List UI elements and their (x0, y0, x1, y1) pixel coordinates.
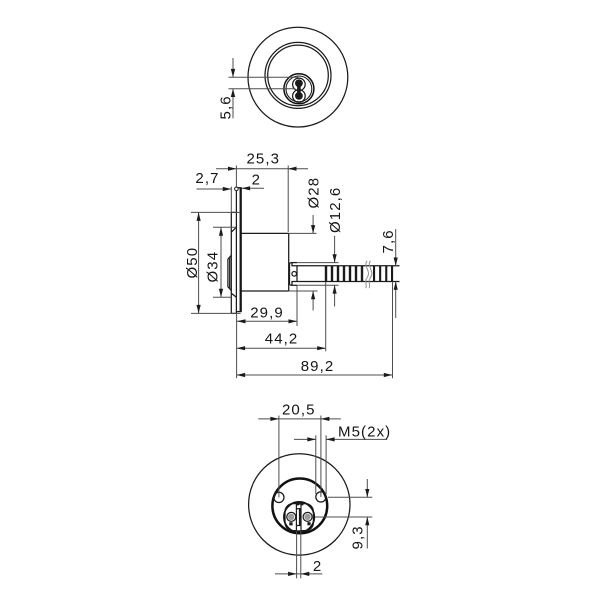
plug nose profile (228, 255, 231, 290)
dimension Ø28 leader bottom (311, 291, 315, 311)
extension line M5 right (325, 435, 327, 494)
dimension 9,3 leader bottom (365, 517, 369, 549)
body rear face (288, 233, 290, 291)
shaft bottom edge (297, 281, 400, 283)
dimension 29,9 line (237, 319, 297, 323)
thread bars section 2 (373, 266, 393, 282)
dimension text 25,3 (246, 151, 280, 168)
flange rear face line (235, 188, 237, 314)
keyhole black dumbbell (295, 79, 303, 99)
dimension text Ø28 (306, 177, 323, 209)
dark wedge above bar (296, 502, 303, 505)
flange top edge (231, 211, 236, 213)
svg-text:25,3: 25,3 (246, 151, 280, 168)
dimension text 44,2 (265, 331, 299, 348)
connector step notch bottom (292, 282, 297, 286)
svg-text:2: 2 (313, 558, 322, 575)
Ø34 extension bottom (213, 296, 231, 298)
connector hole circle (292, 272, 297, 277)
dark mark lower right (307, 522, 310, 525)
dimension text Ø12,6 (327, 187, 344, 233)
extension line 2 right (300, 531, 302, 578)
plug circle rear (284, 502, 314, 532)
dimension text 89,2 (301, 358, 335, 375)
dimension 2 line (275, 572, 322, 576)
extension line plug centre (229, 88, 296, 90)
ring rim inner circle (268, 45, 329, 106)
body circle Ø28 thick (272, 479, 327, 534)
boss chamfer bottom (231, 293, 236, 297)
extension line M5 left (315, 435, 317, 494)
extension line 2 left (296, 531, 298, 578)
body bottom edge with Ø28 extension (241, 290, 318, 292)
dimension text 2 (252, 172, 261, 189)
pin circle right outline (303, 512, 312, 521)
cam plate rounded outline (285, 504, 313, 531)
outer rose circle Ø50 front (248, 27, 348, 127)
dimension 25,3 line (216, 167, 308, 171)
shaft top edge (297, 265, 400, 267)
svg-text:M5(2x): M5(2x) (338, 424, 391, 441)
dimension text 9,3 (349, 525, 366, 549)
extension line 44,2 right (325, 282, 327, 351)
svg-text:Ø28: Ø28 (306, 177, 323, 209)
extension line 9,3 top (328, 496, 372, 498)
plug outer circle (284, 74, 314, 104)
extension line left of 25,3 (235, 166, 237, 188)
pin circle left outline (287, 512, 296, 521)
thread bars section 1 (325, 266, 363, 282)
flange bottom edge (231, 312, 236, 314)
extension line 20,5 left (278, 416, 280, 498)
dimension 7,6 leader top (394, 229, 398, 266)
dimension text M5(2x) (338, 424, 391, 441)
dimension text 5,6 (218, 95, 235, 119)
extension line keyway top (229, 76, 299, 78)
svg-text:44,2: 44,2 (265, 331, 299, 348)
dark mark lower left (289, 522, 292, 525)
extension line 89,2 right (392, 282, 394, 379)
tail bar black stripe (299, 509, 302, 526)
dimension 9,3 leader top (365, 479, 369, 497)
dimension text 2 rear (313, 558, 322, 575)
svg-text:Ø34: Ø34 (205, 251, 222, 283)
dimension Ø50 line (197, 212, 201, 313)
connector end face (296, 266, 298, 282)
svg-text:2: 2 (252, 172, 261, 189)
pin left gray fill (288, 514, 294, 520)
tail bar divider bottom (296, 525, 301, 527)
svg-text:89,2: 89,2 (301, 358, 335, 375)
svg-text:20,5: 20,5 (282, 401, 316, 418)
dimension 2 leader (242, 186, 264, 190)
dimension 5,6 leader lower (231, 89, 235, 119)
outer rose circle rear (249, 454, 350, 555)
svg-text:29,9: 29,9 (250, 304, 284, 321)
Ø50 extension top (191, 211, 240, 213)
dimension text 20,5 (282, 401, 316, 418)
screw hole left (274, 492, 284, 502)
dimension 89,2 line (237, 373, 393, 377)
marker circle on extension (235, 187, 239, 191)
spacer plate bottom edge (236, 311, 241, 313)
boss chamfer top (231, 227, 236, 232)
svg-text:9,3: 9,3 (349, 525, 366, 549)
extension line 29,9 right (296, 286, 298, 326)
Ø50 extension bottom (191, 312, 241, 314)
tail bar outline (296, 503, 301, 531)
svg-text:5,6: 5,6 (218, 95, 235, 119)
svg-text:Ø12,6: Ø12,6 (327, 187, 344, 233)
dimension text Ø50 (184, 247, 201, 279)
connector bottom edge with Ø12,6 extension (291, 284, 339, 286)
dimension 20,5 line (258, 417, 341, 421)
keyway lower circle (293, 90, 306, 103)
extension line left bottom dims (236, 313, 238, 378)
break squiggle right (369, 261, 372, 288)
dimension Ø12,6 leader top (333, 236, 337, 263)
extension line 9,3 bottom (315, 516, 372, 518)
dimension text 2,7 (195, 170, 219, 187)
dimension text 7,6 (380, 229, 397, 253)
spacer plate rear thick line (240, 188, 242, 312)
tail bar divider top (296, 508, 301, 510)
plug inner circle (286, 76, 312, 102)
body top edge with Ø28 extension (241, 232, 317, 234)
connector left face chamfered (290, 263, 291, 286)
pin right gray fill (304, 514, 310, 520)
dimension Ø12,6 leader bottom (333, 285, 337, 306)
dimension 44,2 line (237, 346, 326, 350)
keyway upper circle (293, 78, 306, 91)
ring rim outer circle (265, 42, 331, 108)
dimension 5,6 leader upper (231, 58, 235, 77)
connector step notch top (292, 263, 297, 266)
dimension M5 line (294, 437, 387, 441)
break squiggle left (366, 261, 369, 288)
spacer plate top edge (236, 187, 241, 189)
svg-text:7,6: 7,6 (380, 229, 397, 253)
extension line right of 25,3 (287, 166, 289, 233)
dimension 2,7 leader (197, 187, 232, 191)
svg-text:2,7: 2,7 (195, 170, 219, 187)
Ø34 extension top (213, 226, 236, 228)
extension line 20,5 right (320, 416, 322, 497)
dimension 7,6 leader bottom (394, 282, 398, 319)
flange front face line (230, 187, 232, 314)
svg-text:Ø50: Ø50 (184, 247, 201, 279)
dimension Ø34 line (219, 227, 223, 297)
connector top edge with Ø12,6 extension (291, 262, 339, 264)
dimension text Ø34 (205, 251, 222, 283)
dimension text 29,9 (250, 304, 284, 321)
dimension Ø28 leader top (311, 215, 315, 233)
screw hole right (316, 492, 326, 502)
